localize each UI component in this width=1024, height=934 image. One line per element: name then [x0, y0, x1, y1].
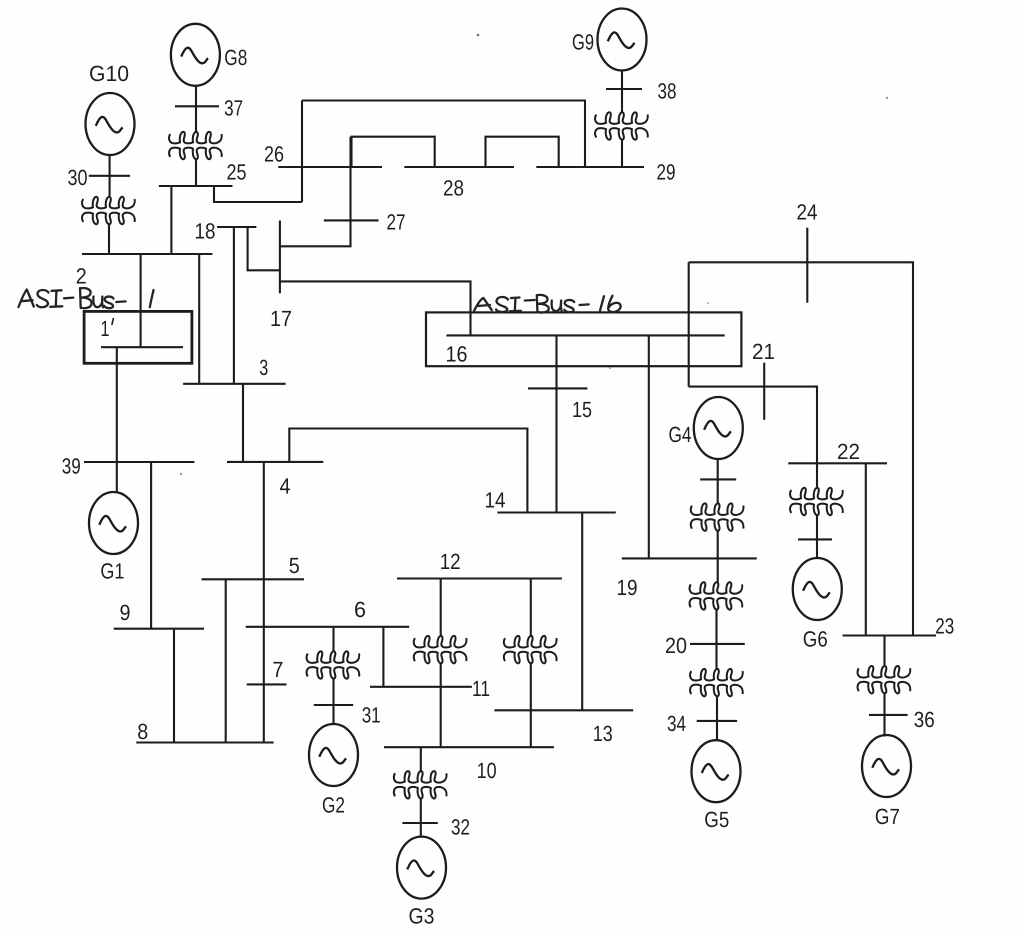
bus 4	[227, 461, 323, 463]
wire G8 to bus37 to transformer	[195, 86, 197, 132]
svg-text:G1: G1	[100, 559, 124, 584]
generator G2	[309, 724, 358, 786]
bus 19	[622, 557, 757, 559]
bus 16	[446, 334, 724, 336]
wire transformer to bus 29	[621, 140, 623, 167]
wire 9-8	[173, 629, 175, 743]
svg-text:G5: G5	[704, 807, 729, 832]
scan speck	[609, 367, 611, 369]
svg-text:5: 5	[289, 553, 300, 578]
svg-text:34: 34	[667, 711, 686, 736]
bus 27	[324, 219, 379, 221]
svg-text:7: 7	[272, 657, 283, 682]
bus 7	[247, 683, 287, 685]
wire 5-8	[225, 579, 227, 742]
label ASI-Bus-16 handwritten	[474, 295, 620, 313]
bus 18	[217, 226, 256, 228]
bus 8	[136, 741, 273, 743]
svg-text:G6: G6	[803, 627, 828, 652]
wire right transformer to 13-10	[530, 664, 532, 748]
wire transformer to G6	[816, 516, 818, 559]
svg-text:19: 19	[617, 575, 638, 600]
scan speck	[707, 302, 709, 304]
wire 17-16	[280, 281, 471, 335]
wire 16-19	[648, 335, 650, 558]
transformer T33-19	[691, 503, 744, 530]
wire 4-14	[289, 429, 527, 513]
svg-text:2: 2	[76, 264, 87, 289]
bus 6	[246, 626, 410, 628]
bus 20	[690, 643, 745, 645]
bus 5	[202, 578, 305, 580]
wire to bus 34 and G5	[716, 696, 718, 740]
svg-text:G10: G10	[89, 61, 129, 86]
bus 17 vertical	[279, 221, 281, 294]
svg-text:16: 16	[446, 342, 468, 367]
wire 6-11	[382, 627, 384, 687]
bus 21	[763, 363, 765, 420]
transformer T23-36	[858, 666, 911, 693]
wire 2-3	[198, 254, 200, 384]
generator G6	[793, 558, 842, 620]
bus 22	[788, 462, 887, 464]
label ASI-Bus-1 handwritten	[19, 288, 154, 308]
wire 12 to left transformer	[440, 579, 442, 637]
svg-text:6: 6	[354, 597, 366, 622]
bus 12	[397, 577, 562, 579]
ASI-Bus-1 rectangle	[84, 311, 192, 363]
ASI-Bus-16 rectangle	[426, 312, 741, 366]
wire transformer-31-G2	[332, 680, 334, 724]
wire 39-9	[150, 462, 152, 629]
svg-text:38: 38	[658, 79, 677, 104]
generator G4	[694, 397, 743, 459]
bus 15	[528, 387, 587, 389]
svg-text:9: 9	[120, 600, 131, 625]
wire 23 to transformer	[883, 636, 885, 666]
svg-text:30: 30	[68, 165, 88, 190]
svg-text:8: 8	[137, 719, 148, 744]
generator G5	[692, 740, 741, 802]
generator G9	[598, 9, 647, 71]
wire 26 riser	[301, 101, 303, 203]
svg-text:29: 29	[657, 160, 676, 185]
svg-text:20: 20	[665, 633, 687, 658]
svg-text:G9: G9	[572, 30, 594, 55]
bus 25	[159, 185, 233, 187]
G4 step-up tick	[700, 478, 736, 480]
bus 36	[869, 714, 908, 716]
wire 25-26 jog	[214, 186, 302, 202]
transformer T12-13	[504, 636, 557, 663]
wire 18-17 jog	[248, 227, 280, 270]
transformer T30-2	[82, 197, 135, 224]
svg-text:12: 12	[440, 549, 461, 574]
bus 11	[370, 686, 472, 688]
bus 37	[175, 105, 219, 107]
bus 30	[89, 175, 130, 177]
wire transformer-32-G3	[420, 799, 422, 837]
wire 3-4	[242, 384, 244, 462]
svg-text:1: 1	[101, 316, 110, 341]
bus 10	[384, 746, 554, 748]
bus 24	[806, 228, 808, 303]
transformer T37-25	[169, 132, 222, 159]
bus 32	[402, 822, 437, 824]
wire 22 to transformer	[816, 463, 818, 488]
transformer T19-20	[690, 582, 743, 609]
bus 2	[82, 253, 212, 255]
svg-text:G3: G3	[409, 904, 435, 929]
wire to bus 20 and transformer 3	[715, 610, 717, 670]
wire 18-3	[233, 227, 235, 384]
generator G8	[171, 24, 220, 86]
bus 38	[606, 88, 642, 90]
svg-text:11: 11	[472, 676, 490, 701]
bus 3	[183, 383, 286, 385]
svg-text:G4: G4	[669, 422, 692, 447]
svg-text:37: 37	[224, 96, 243, 121]
svg-text:13: 13	[593, 721, 613, 746]
svg-text:25: 25	[227, 160, 247, 185]
wire 1-39-G1	[116, 347, 118, 492]
staple 28-29	[486, 137, 559, 167]
wire 12 to right transformer	[530, 579, 532, 637]
wire G4 to tick to transformer	[717, 460, 719, 505]
svg-text:28: 28	[443, 176, 464, 201]
wire transformer to bus 2	[108, 225, 110, 255]
transformer T22-35	[790, 488, 843, 515]
wire 2-1	[140, 254, 142, 347]
svg-text:32: 32	[451, 815, 470, 840]
scan speck	[180, 473, 182, 475]
svg-text:17: 17	[270, 306, 292, 331]
wire 16-21-22	[689, 387, 817, 464]
wire transformer to bus 25	[195, 160, 197, 187]
svg-text:14: 14	[485, 488, 506, 513]
wire G10 to bus30 to transformer	[109, 155, 111, 196]
svg-text:3: 3	[259, 355, 268, 380]
bus 26	[278, 166, 382, 168]
generator G1	[89, 492, 138, 554]
wire 26/27 long vertical to 17	[280, 137, 351, 247]
svg-text:4: 4	[280, 474, 291, 499]
svg-text:18: 18	[195, 219, 216, 244]
wire 22-23	[865, 463, 867, 635]
svg-text:24: 24	[797, 200, 818, 225]
bus 9	[114, 628, 204, 630]
svg-text:G7: G7	[875, 804, 900, 829]
scan speck	[477, 34, 480, 37]
bus 39	[84, 461, 194, 463]
wire left transformer to 11-10	[440, 664, 442, 748]
svg-text:26: 26	[264, 142, 284, 167]
wire 10 to transformer	[420, 747, 422, 771]
transformer T6-31	[307, 651, 360, 678]
transformer T38-29	[595, 112, 648, 139]
bus 1	[101, 346, 183, 348]
bus 14	[497, 511, 615, 513]
wire transformer-36-G7	[883, 694, 885, 737]
bus 13	[494, 709, 633, 711]
scan speck	[886, 97, 888, 99]
wire vertical through bus16 box	[688, 262, 690, 386]
wire 6 to transformer	[332, 627, 334, 651]
wire 14-13	[581, 513, 583, 711]
svg-text:31: 31	[362, 703, 381, 728]
bus 28	[404, 166, 514, 168]
svg-text:27: 27	[387, 210, 406, 235]
wire 16-24-23 corner	[689, 262, 913, 635]
transformer T12-11	[414, 636, 467, 663]
svg-text:15: 15	[572, 397, 592, 422]
svg-text:23: 23	[935, 614, 954, 639]
wire 4-5-7-8	[263, 462, 265, 743]
svg-text:G8: G8	[224, 45, 247, 70]
bus 23	[843, 634, 937, 636]
transformer T10-32	[394, 771, 447, 798]
wire G9 to bus38 to transformer	[621, 70, 623, 113]
wire to bus 19 and transformer 2	[717, 531, 719, 583]
svg-text:39: 39	[62, 454, 81, 479]
generator G10	[86, 93, 135, 155]
bus 34	[697, 720, 737, 722]
G6 tick	[798, 538, 832, 540]
bus 29	[536, 166, 644, 168]
bus 31	[314, 704, 353, 706]
transformer T20-34	[690, 669, 743, 696]
svg-text:21: 21	[752, 339, 775, 364]
svg-text:10: 10	[477, 758, 497, 783]
svg-text:22: 22	[837, 439, 860, 464]
svg-text:36: 36	[914, 707, 935, 732]
wire 25-2	[170, 186, 172, 254]
staple 26-28	[352, 137, 435, 167]
wire 26-29 top line	[302, 101, 585, 168]
generator G7	[862, 735, 911, 797]
wire 16-15-14	[555, 335, 557, 512]
svg-text:G2: G2	[322, 793, 345, 818]
generator G3	[397, 837, 446, 899]
bus 1 apostrophe tick	[112, 318, 114, 325]
